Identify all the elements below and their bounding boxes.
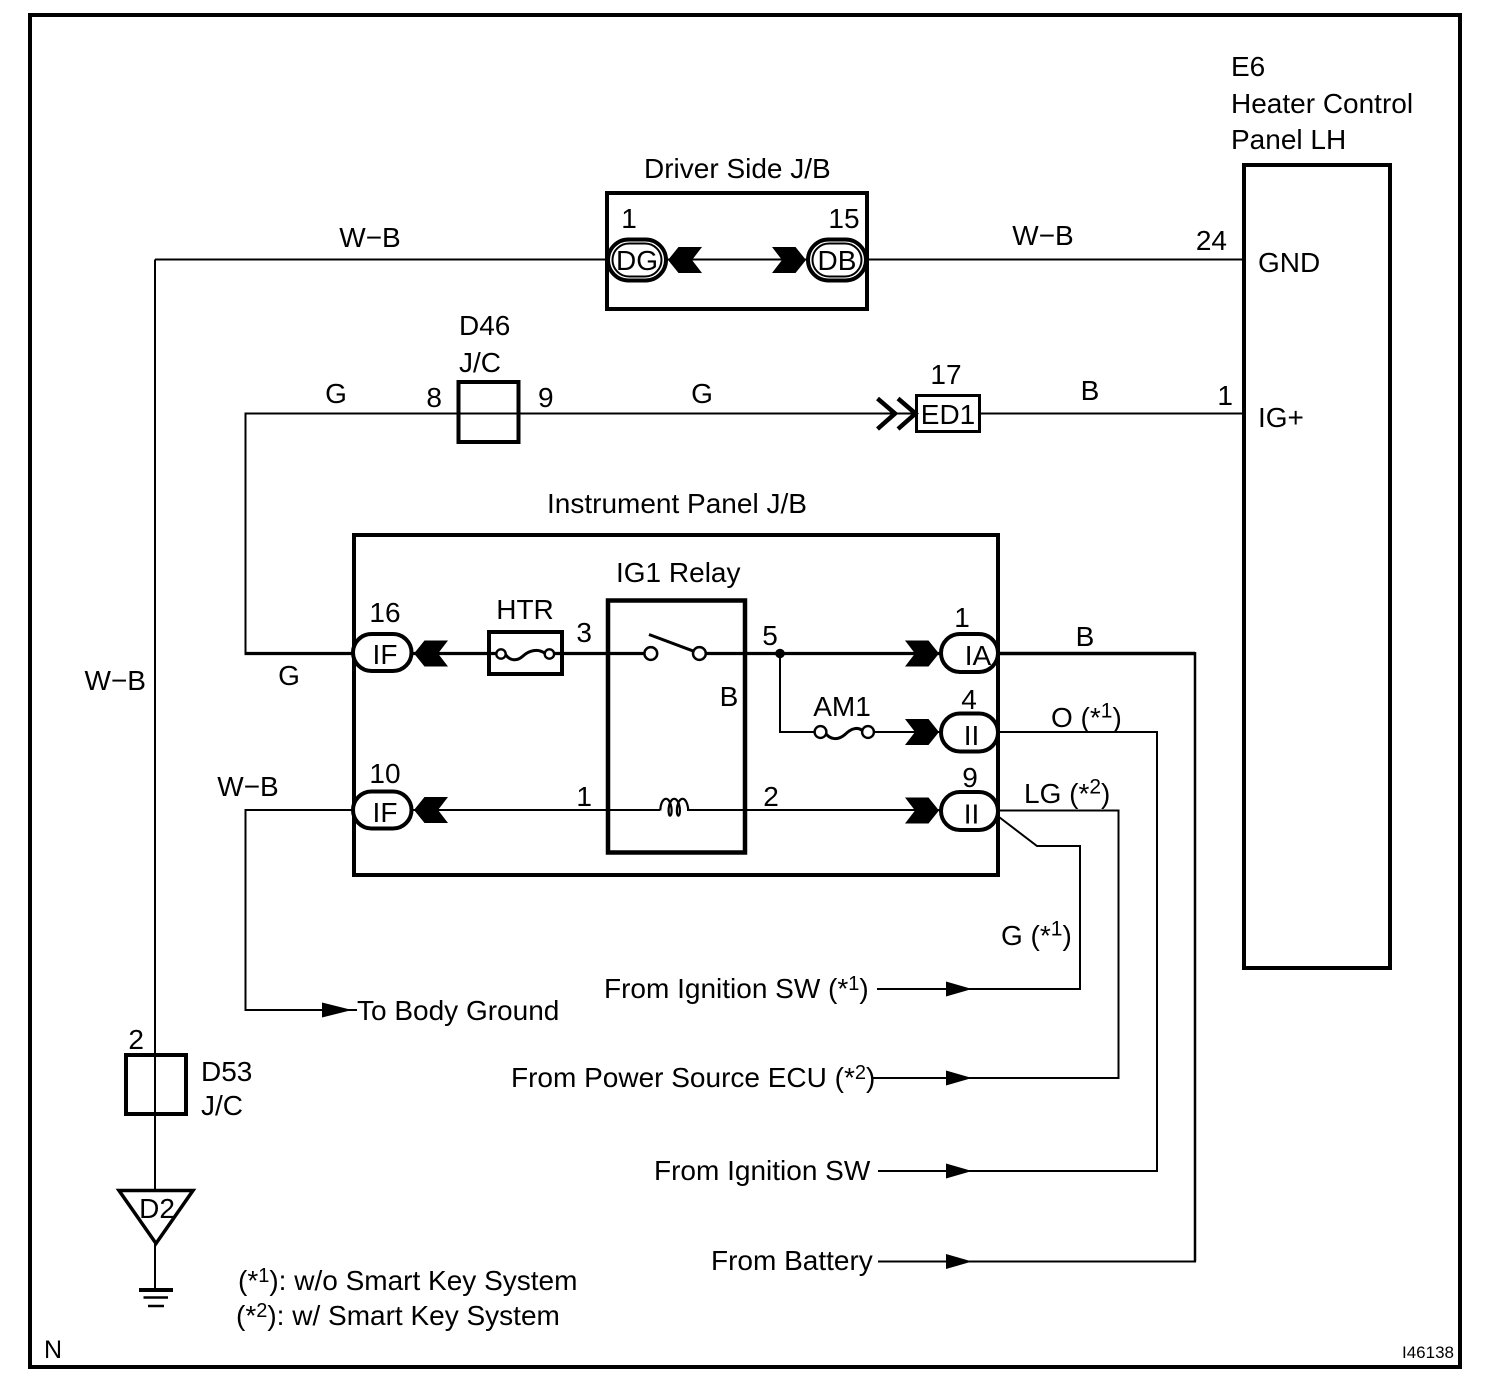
svg-text:16: 16 [369, 597, 400, 628]
svg-text:W−B: W−B [1012, 220, 1073, 251]
svg-text:8: 8 [426, 382, 442, 413]
svg-text:N: N [44, 1336, 62, 1364]
svg-text:9: 9 [962, 762, 978, 793]
svg-text:To Body Ground: To Body Ground [357, 995, 559, 1026]
svg-text:B: B [1081, 375, 1100, 406]
svg-text:IA: IA [965, 640, 992, 671]
svg-text:Instrument Panel J/B: Instrument Panel J/B [547, 488, 807, 519]
svg-text:D53: D53 [201, 1056, 252, 1087]
svg-text:10: 10 [369, 758, 400, 789]
svg-text:IG1 Relay: IG1 Relay [616, 557, 741, 588]
svg-text:E6: E6 [1231, 51, 1265, 82]
svg-text:ED1: ED1 [921, 399, 975, 430]
svg-text:5: 5 [762, 620, 778, 651]
svg-text:1: 1 [954, 602, 970, 633]
svg-text:(*1): w/o Smart Key System: (*1): w/o Smart Key System [238, 1265, 577, 1296]
svg-text:I46138: I46138 [1402, 1343, 1454, 1362]
svg-text:D2: D2 [139, 1193, 175, 1224]
svg-text:From Power Source ECU (*2): From Power Source ECU (*2) [511, 1062, 875, 1093]
svg-text:3: 3 [576, 617, 592, 648]
svg-text:1: 1 [576, 781, 592, 812]
svg-text:G: G [278, 660, 300, 691]
svg-text:W−B: W−B [339, 222, 400, 253]
svg-text:G: G [691, 378, 713, 409]
svg-text:DB: DB [818, 245, 857, 276]
svg-text:Panel LH: Panel LH [1231, 124, 1346, 155]
svg-text:J/C: J/C [459, 347, 501, 378]
svg-text:15: 15 [828, 203, 859, 234]
svg-text:II: II [964, 799, 980, 830]
svg-text:17: 17 [930, 359, 961, 390]
svg-text:W−B: W−B [85, 665, 146, 696]
svg-text:2: 2 [763, 781, 779, 812]
svg-text:IF: IF [373, 797, 398, 828]
svg-text:From Battery: From Battery [711, 1245, 873, 1276]
svg-text:1: 1 [1217, 380, 1233, 411]
svg-text:2: 2 [128, 1024, 144, 1055]
svg-text:G: G [325, 378, 347, 409]
svg-text:1: 1 [621, 203, 637, 234]
svg-text:IG+: IG+ [1258, 402, 1304, 433]
svg-text:HTR: HTR [496, 594, 554, 625]
svg-text:GND: GND [1258, 247, 1320, 278]
svg-text:Driver Side J/B: Driver Side J/B [644, 153, 831, 184]
svg-text:DG: DG [616, 245, 658, 276]
svg-text:II: II [964, 720, 980, 751]
svg-text:B: B [1076, 621, 1095, 652]
svg-text:AM1: AM1 [813, 691, 871, 722]
svg-text:B: B [720, 681, 739, 712]
svg-text:J/C: J/C [201, 1090, 243, 1121]
svg-text:4: 4 [961, 684, 977, 715]
svg-text:24: 24 [1196, 225, 1227, 256]
svg-text:From Ignition SW (*1): From Ignition SW (*1) [604, 973, 869, 1004]
svg-text:D46: D46 [459, 310, 510, 341]
svg-text:IF: IF [373, 639, 398, 670]
svg-text:(*2): w/ Smart Key System: (*2): w/ Smart Key System [236, 1300, 560, 1331]
svg-text:From Ignition SW: From Ignition SW [654, 1155, 871, 1186]
svg-text:9: 9 [538, 382, 554, 413]
svg-text:W−B: W−B [217, 771, 278, 802]
svg-text:Heater Control: Heater Control [1231, 88, 1413, 119]
